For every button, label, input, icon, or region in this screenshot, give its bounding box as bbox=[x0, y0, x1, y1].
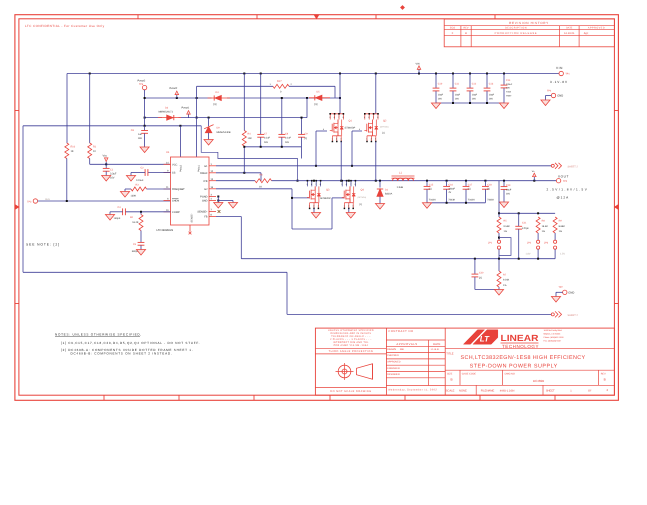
svg-text:FB: FB bbox=[204, 216, 208, 219]
wire PVCC2 riser bbox=[179, 126, 181, 157]
see note 2 text bbox=[26, 242, 60, 246]
svg-text:NOTES: UNLESS OTHERWISE SPECIF: NOTES: UNLESS OTHERWISE SPECIFIED, bbox=[55, 333, 142, 337]
inductor L1 bbox=[392, 171, 415, 189]
U1 pin labels bbox=[172, 163, 208, 222]
svg-text:130K: 130K bbox=[131, 194, 137, 197]
svg-text:C15: C15 bbox=[429, 183, 434, 186]
svg-text:SCALE: SCALE bbox=[446, 390, 455, 393]
svg-text:LT: LT bbox=[480, 335, 490, 344]
svg-text:VCC: VCC bbox=[172, 163, 178, 166]
wire input cap ground bus bbox=[436, 102, 504, 104]
svg-text:5: 5 bbox=[341, 183, 342, 186]
svg-text:1: 1 bbox=[366, 138, 367, 141]
svg-text:10uF: 10uF bbox=[506, 188, 512, 191]
wire Q2 gate riser bbox=[352, 128, 362, 166]
svg-text:G1: G1 bbox=[204, 165, 208, 168]
capacitor C3 bbox=[132, 242, 145, 252]
svg-text:DWG NO: DWG NO bbox=[505, 373, 515, 376]
svg-text:VIN: VIN bbox=[416, 63, 420, 66]
svg-text:[1]: [1] bbox=[315, 103, 318, 106]
title block outline bbox=[315, 328, 614, 395]
svg-text:SENSE-: SENSE- bbox=[191, 213, 194, 222]
svg-text:1630 McCarthy Blvd.: 1630 McCarthy Blvd. bbox=[544, 329, 563, 332]
svg-text:2: 2 bbox=[336, 138, 337, 141]
svg-text:PVcc1: PVcc1 bbox=[198, 164, 201, 172]
revision history table bbox=[444, 19, 614, 47]
svg-text:16V: 16V bbox=[472, 97, 477, 100]
svg-text:C17: C17 bbox=[468, 183, 473, 186]
ground at C2 bbox=[126, 173, 135, 182]
svg-text:REV: REV bbox=[464, 27, 469, 30]
power flag VIN bbox=[416, 63, 421, 74]
svg-text:LTC3832EGN: LTC3832EGN bbox=[157, 229, 174, 232]
svg-text:1: 1 bbox=[344, 205, 345, 208]
capacitor C17 bbox=[463, 181, 475, 203]
svg-text:R10: R10 bbox=[71, 146, 76, 149]
wire riser R17 left leg bbox=[196, 86, 198, 118]
svg-text:APPROVED: APPROVED bbox=[387, 361, 401, 364]
resistor R17 bbox=[197, 80, 335, 98]
svg-text:CHECKED: CHECKED bbox=[387, 354, 399, 357]
svg-text:9.01K: 9.01K bbox=[503, 279, 510, 282]
svg-text:APPROVALS: APPROVALS bbox=[396, 342, 417, 346]
wire PVCC top line bbox=[23, 125, 201, 127]
svg-text:469B-1.DSN: 469B-1.DSN bbox=[500, 390, 515, 393]
wire staircase to switch node bbox=[201, 126, 298, 182]
svg-text:8: 8 bbox=[343, 116, 344, 119]
capacitor C8 bbox=[278, 97, 291, 147]
svg-text:C20: C20 bbox=[479, 271, 484, 274]
wire divider top rail bbox=[498, 212, 555, 214]
svg-text:TP6: TP6 bbox=[139, 83, 144, 86]
svg-text:10uF: 10uF bbox=[438, 93, 444, 96]
resistor R2 bbox=[130, 212, 143, 242]
capacitor C19 bbox=[499, 181, 511, 208]
svg-text:FREQ/SET: FREQ/SET bbox=[172, 188, 185, 191]
svg-text:5: 5 bbox=[329, 116, 330, 119]
capacitor C1 bbox=[103, 164, 117, 179]
svg-text:MB: MB bbox=[400, 348, 404, 351]
svg-text:2 PLACES - - - 3 PLACES -: 2 PLACES - - - 3 PLACES - - - bbox=[330, 338, 372, 341]
svg-text:&gt;: &gt; bbox=[584, 32, 589, 35]
svg-text:DC469B-B: COMPONENTS ON SHEET: DC469B-B: COMPONENTS ON SHEET 2 INSTEAD. bbox=[71, 352, 173, 356]
svg-text:7343H: 7343H bbox=[429, 198, 436, 201]
svg-text:[1]: [1] bbox=[214, 103, 217, 106]
svg-text:COMP: COMP bbox=[172, 211, 180, 214]
svg-text:C21: C21 bbox=[522, 221, 527, 224]
svg-text:7343H: 7343H bbox=[487, 198, 494, 201]
svg-text:8.66K: 8.66K bbox=[559, 225, 566, 228]
svg-text:Si7892DP: Si7892DP bbox=[345, 127, 356, 130]
svg-text:3: 3 bbox=[352, 205, 353, 208]
svg-text:SS: SS bbox=[172, 172, 176, 175]
svg-text:JP1: JP1 bbox=[488, 241, 493, 244]
svg-text:C16: C16 bbox=[448, 183, 453, 186]
svg-text:16V: 16V bbox=[285, 141, 290, 144]
svg-text:3: 3 bbox=[318, 205, 319, 208]
svg-text:G2: G2 bbox=[204, 188, 208, 191]
ground below D9 bbox=[204, 140, 213, 146]
svg-text:C10: C10 bbox=[438, 82, 443, 85]
power flag Vcc bbox=[103, 155, 109, 165]
ground below Q3 bbox=[311, 208, 320, 218]
wire Pvout1 line bbox=[144, 98, 307, 119]
capacitor C13 bbox=[484, 74, 495, 104]
svg-text:IFB: IFB bbox=[204, 180, 208, 183]
svg-text:8: 8 bbox=[355, 183, 356, 186]
svg-text:TP7: TP7 bbox=[559, 286, 564, 289]
resistor R10 bbox=[65, 143, 76, 159]
svg-text:DATE: DATE bbox=[433, 342, 440, 346]
linear technology logo bbox=[464, 329, 565, 349]
plot registration mark bbox=[401, 6, 405, 10]
svg-text:PRODUCTION RELEASE: PRODUCTION RELEASE bbox=[495, 32, 538, 35]
wire Pvout2 line bbox=[145, 90, 341, 99]
svg-text:VOUT: VOUT bbox=[558, 174, 569, 178]
svg-text:U1: U1 bbox=[166, 151, 170, 154]
svg-text:3: 3 bbox=[340, 138, 341, 141]
svg-text:12-19-01: 12-19-01 bbox=[564, 32, 575, 35]
svg-text:16.2K: 16.2K bbox=[132, 221, 139, 224]
svg-text:Vcc: Vcc bbox=[103, 155, 108, 158]
svg-text:1.3uH: 1.3uH bbox=[397, 186, 404, 189]
svg-text:1K: 1K bbox=[71, 150, 74, 153]
ground below C3 bbox=[136, 250, 145, 256]
svg-text:Wednesday, September 11, 2002: Wednesday, September 11, 2002 bbox=[388, 388, 437, 391]
capacitor C14 bbox=[501, 74, 513, 104]
power flag Pvout2 bbox=[170, 87, 179, 98]
svg-text:JP3: JP3 bbox=[544, 241, 549, 244]
svg-text:3.1V-8V: 3.1V-8V bbox=[550, 80, 568, 84]
wire R5 to jumper JP1 bbox=[498, 213, 500, 240]
capacitor C16 bbox=[443, 181, 455, 203]
no-connect X at SENSE+ pin bbox=[218, 210, 221, 213]
svg-text:8: 8 bbox=[377, 116, 378, 119]
wire RMAX line bbox=[216, 172, 261, 181]
size/cage/dwg-no/rev row bbox=[445, 370, 614, 385]
capacitor C15 bbox=[424, 181, 436, 203]
svg-text:180uF: 180uF bbox=[448, 187, 455, 190]
transistor Q4 bbox=[341, 180, 366, 209]
svg-text:C13: C13 bbox=[489, 82, 494, 85]
svg-text:6: 6 bbox=[311, 183, 312, 186]
wire switch/output rail bbox=[272, 180, 557, 182]
wire G2 line bbox=[216, 189, 345, 229]
svg-text:C19: C19 bbox=[506, 184, 511, 187]
wire IFB line and resistor R6 bbox=[216, 174, 272, 189]
svg-text:7: 7 bbox=[350, 183, 351, 186]
wire cap bank bottom bus bbox=[243, 146, 301, 159]
ground at R3 bbox=[120, 189, 129, 197]
svg-text:16V: 16V bbox=[264, 141, 269, 144]
svg-text:1.5V: 1.5V bbox=[560, 253, 565, 256]
svg-text:8: 8 bbox=[320, 183, 321, 186]
capacitor C21 bbox=[515, 213, 529, 258]
svg-text:5: 5 bbox=[364, 116, 365, 119]
transistor Q2 bbox=[364, 74, 389, 143]
resistor R3 on FREQ/SET bbox=[125, 183, 171, 197]
svg-text:C18: C18 bbox=[487, 183, 492, 186]
op-amp U1 LTC3832EGN box bbox=[164, 157, 217, 232]
capacitor C18 bbox=[482, 181, 494, 203]
svg-text:TP4: TP4 bbox=[547, 89, 552, 92]
svg-text:@12A: @12A bbox=[557, 195, 570, 199]
wire PVCC1 riser bbox=[196, 118, 198, 157]
svg-text:220uF: 220uF bbox=[506, 83, 513, 86]
svg-text:10uF: 10uF bbox=[472, 93, 478, 96]
capacitor C11 bbox=[450, 74, 461, 104]
off-page connector SHEET 2 upper bbox=[551, 163, 578, 169]
svg-text:16V: 16V bbox=[138, 137, 143, 140]
svg-text:VIN: VIN bbox=[556, 66, 563, 70]
border frame outer bbox=[15, 15, 619, 401]
svg-text:(OPTION): (OPTION) bbox=[380, 126, 389, 129]
capacitor C12 bbox=[467, 74, 478, 104]
svg-text:[1]: [1] bbox=[360, 203, 363, 206]
svg-text:C11: C11 bbox=[455, 82, 460, 85]
svg-text:4V: 4V bbox=[448, 191, 451, 194]
wire VIN top rail bbox=[67, 74, 559, 144]
notes text bbox=[55, 333, 200, 356]
svg-text:FILENAME: FILENAME bbox=[481, 390, 495, 393]
jumper JP1 bbox=[488, 238, 511, 259]
resistor R7 bbox=[497, 259, 510, 290]
wire Q1 gate riser bbox=[316, 128, 327, 166]
power flag Vo bbox=[532, 170, 536, 181]
svg-text:1.8V: 1.8V bbox=[526, 253, 531, 256]
svg-text:OF: OF bbox=[588, 390, 592, 393]
svg-text:SEE NOTE: [2]: SEE NOTE: [2] bbox=[26, 242, 60, 246]
svg-text:1: 1 bbox=[309, 205, 310, 208]
svg-text:RUN: RUN bbox=[45, 198, 50, 201]
resistor R4 bbox=[242, 74, 252, 173]
ground below C1 bbox=[102, 176, 111, 182]
svg-text:TP2: TP2 bbox=[563, 180, 568, 183]
svg-text:10V: 10V bbox=[506, 87, 510, 90]
resistor R8 bbox=[536, 217, 548, 233]
svg-text:10uF: 10uF bbox=[455, 93, 461, 96]
svg-text:TP1: TP1 bbox=[565, 73, 570, 76]
svg-text:SHEET 2: SHEET 2 bbox=[568, 165, 579, 168]
test point TP7 with ground bbox=[551, 286, 574, 302]
svg-text:7: 7 bbox=[338, 116, 339, 119]
svg-text:Si7892DP: Si7892DP bbox=[320, 197, 331, 200]
zener diode D9 bbox=[204, 118, 231, 140]
diode D4 bbox=[208, 91, 231, 106]
jumper JP3 bbox=[544, 233, 565, 259]
contract/approvals cell bbox=[386, 330, 445, 392]
diode D3 bbox=[158, 107, 181, 121]
svg-text:[1]: [1] bbox=[382, 132, 385, 135]
svg-text:SHEET: SHEET bbox=[546, 390, 555, 393]
svg-text:RMAX: RMAX bbox=[200, 172, 208, 175]
svg-text:MBR0520LT1: MBR0520LT1 bbox=[159, 110, 174, 113]
svg-text:B: B bbox=[465, 32, 467, 35]
svg-text:ENGINEER: ENGINEER bbox=[387, 367, 400, 370]
svg-text:DO NOT SCALE DRAWING: DO NOT SCALE DRAWING bbox=[330, 390, 371, 393]
test point TP2 bbox=[547, 174, 589, 199]
svg-text:7: 7 bbox=[315, 183, 316, 186]
svg-text:[1]: [1] bbox=[468, 187, 471, 190]
svg-text:(OPTION): (OPTION) bbox=[358, 196, 367, 199]
svg-text:0.1uF: 0.1uF bbox=[264, 137, 270, 140]
capacitor C4 on COMP bbox=[110, 206, 171, 220]
svg-text:1uF: 1uF bbox=[138, 133, 143, 136]
svg-text:B320A: B320A bbox=[385, 193, 393, 196]
svg-text:B: B bbox=[604, 378, 606, 382]
svg-text:SENSE+: SENSE+ bbox=[197, 211, 208, 214]
svg-text:TP3: TP3 bbox=[27, 201, 32, 204]
ground at input caps right bbox=[499, 103, 508, 109]
svg-text:Milpitas, CA 95035: Milpitas, CA 95035 bbox=[544, 333, 562, 336]
svg-text:LTC CONFIDENTIAL - For Custome: LTC CONFIDENTIAL - For Customer Use Only bbox=[25, 24, 105, 28]
U1 reference labels bbox=[157, 151, 174, 232]
svg-text:0.01uF: 0.01uF bbox=[136, 179, 144, 182]
junctions on VIN rail bbox=[89, 73, 505, 75]
tolerance note cell bbox=[315, 329, 386, 354]
svg-text:PVcc2: PVcc2 bbox=[179, 164, 182, 172]
svg-text:2: 2 bbox=[313, 205, 314, 208]
junctions on switch/output rail bbox=[313, 180, 535, 182]
svg-text:DESIGNER: DESIGNER bbox=[387, 373, 400, 376]
ground below C6 bbox=[140, 147, 149, 153]
svg-text:6: 6 bbox=[368, 116, 369, 119]
svg-text:SHDN: SHDN bbox=[172, 200, 179, 203]
wire R10 to RUN line bbox=[66, 159, 68, 202]
svg-text:6: 6 bbox=[334, 116, 335, 119]
svg-text:[1]: [1] bbox=[305, 137, 308, 140]
title text cell bbox=[445, 348, 614, 370]
svg-text:1: 1 bbox=[332, 138, 333, 141]
capacitor C2 on SS bbox=[135, 166, 171, 182]
ground at output caps bbox=[422, 203, 431, 209]
wire TP6 riser bbox=[144, 97, 146, 126]
ground at input caps left bbox=[431, 103, 440, 109]
U1 pin numbers bbox=[166, 161, 214, 216]
svg-text:Pvout2: Pvout2 bbox=[138, 79, 146, 82]
diode D1 bbox=[377, 181, 393, 204]
do not scale drawing cell bbox=[315, 388, 386, 394]
svg-text:0.1uF: 0.1uF bbox=[285, 137, 291, 140]
svg-text:7: 7 bbox=[373, 116, 374, 119]
svg-text:Pvout1: Pvout1 bbox=[182, 107, 190, 110]
capacitor C9 bbox=[298, 117, 308, 147]
svg-text:PER ASME Y14.5M -1994: PER ASME Y14.5M -1994 bbox=[334, 344, 369, 347]
wire Q1 source riser bbox=[340, 142, 342, 181]
svg-text:[1] C9,C15,C17,C18,C20,D4,D5,Q: [1] C9,C15,C17,C18,C20,D4,D5,Q2,Q4 OPTIO… bbox=[61, 341, 200, 345]
test point TP6 bbox=[138, 79, 147, 89]
ground below R7 bbox=[494, 290, 503, 296]
svg-text:10uF: 10uF bbox=[489, 93, 495, 96]
svg-text:3: 3 bbox=[375, 138, 376, 141]
svg-text:TOLERANCE ON ANGLE - - -: TOLERANCE ON ANGLE - - - bbox=[331, 335, 370, 338]
svg-text:1K: 1K bbox=[259, 186, 262, 189]
svg-text:Pvout2: Pvout2 bbox=[170, 87, 178, 90]
svg-text:REVISION HISTORY: REVISION HISTORY bbox=[509, 21, 549, 25]
capacitor C6 bbox=[131, 126, 148, 147]
svg-text:STEP-DOWN POWER SUPPLY: STEP-DOWN POWER SUPPLY bbox=[470, 364, 558, 370]
jumper JP2 bbox=[526, 233, 540, 259]
svg-text:16.5K: 16.5K bbox=[542, 225, 549, 228]
diode D5 bbox=[309, 91, 330, 106]
ground at U1 PGND/GND pins bbox=[214, 196, 238, 209]
ground at C4 bbox=[105, 212, 114, 220]
test point TP1 bbox=[550, 66, 570, 84]
svg-text:GND: GND bbox=[568, 292, 574, 295]
svg-text:16V: 16V bbox=[438, 97, 443, 100]
svg-text:DRAWN: DRAWN bbox=[387, 348, 396, 351]
svg-text:12-19-01: 12-19-01 bbox=[431, 348, 441, 351]
svg-text:TANT: TANT bbox=[506, 94, 512, 97]
resistor R5 bbox=[497, 217, 510, 233]
svg-text:6: 6 bbox=[346, 183, 347, 186]
wire FB line bbox=[216, 217, 555, 260]
svg-text:GND: GND bbox=[557, 95, 563, 98]
wire G1 gate drive rail bbox=[216, 165, 551, 167]
wire output cap ground bus bbox=[427, 202, 485, 204]
svg-text:CAGE CODE: CAGE CODE bbox=[462, 373, 477, 376]
svg-text:JP2: JP2 bbox=[527, 241, 532, 244]
svg-text:DIMENSIONS ARE IN INCHES: DIMENSIONS ARE IN INCHES bbox=[330, 332, 371, 335]
no-connect X at SENSE- pin bbox=[189, 232, 192, 235]
wire Q2 source riser bbox=[375, 142, 377, 181]
svg-text:INTERPRET DIM AND TOL: INTERPRET DIM AND TOL bbox=[333, 341, 369, 344]
svg-text:SCH,LTC3832EGN/-1ES8 HIGH EFFI: SCH,LTC3832EGN/-1ES8 HIGH EFFICIENCY bbox=[460, 355, 585, 361]
svg-text:B: B bbox=[451, 378, 453, 382]
svg-text:5: 5 bbox=[307, 183, 308, 186]
svg-text:7343H: 7343H bbox=[448, 198, 455, 201]
note-2 frame bottom segment bbox=[23, 272, 551, 314]
svg-text:[2]: [2] bbox=[479, 276, 482, 279]
svg-text:UNLESS OTHERWISE SPECIFIED: UNLESS OTHERWISE SPECIFIED bbox=[328, 329, 374, 332]
svg-text:ECO: ECO bbox=[450, 27, 455, 30]
svg-text:2: 2 bbox=[348, 205, 349, 208]
test point TP3 bbox=[27, 198, 50, 204]
svg-text:7343: 7343 bbox=[506, 91, 512, 94]
resistor R9 bbox=[553, 217, 565, 233]
wire VCC line bbox=[90, 159, 171, 166]
svg-text:SHEET 2: SHEET 2 bbox=[568, 314, 579, 317]
capacitor C7 bbox=[257, 74, 270, 147]
svg-text:TITLE: TITLE bbox=[446, 352, 454, 355]
svg-text:Phone: (408)432-1900: Phone: (408)432-1900 bbox=[544, 336, 565, 339]
svg-text:GND: GND bbox=[202, 200, 208, 203]
capacitor C10 bbox=[433, 74, 444, 104]
svg-text:DATE: DATE bbox=[566, 27, 573, 30]
svg-text:12K: 12K bbox=[248, 137, 253, 140]
svg-text:2: 2 bbox=[371, 138, 372, 141]
svg-text:CONTRACT NO: CONTRACT NO bbox=[388, 330, 413, 333]
svg-text:DC469B: DC469B bbox=[533, 379, 544, 383]
svg-text:C12: C12 bbox=[472, 82, 477, 85]
svg-text:7343H: 7343H bbox=[468, 198, 475, 201]
svg-text:16V: 16V bbox=[455, 97, 460, 100]
svg-text:470pF: 470pF bbox=[522, 227, 529, 230]
svg-text:MMSZ5240B: MMSZ5240B bbox=[217, 131, 231, 134]
svg-text:[1]: [1] bbox=[429, 187, 432, 190]
third angle projection symbol bbox=[336, 363, 373, 380]
svg-text:SIZE: SIZE bbox=[447, 373, 453, 376]
transistor Q1 bbox=[329, 74, 355, 143]
ground below Q4 bbox=[346, 208, 355, 218]
svg-text:DESCRIPTION: DESCRIPTION bbox=[505, 27, 527, 30]
svg-text:Fax: (408)434-0507: Fax: (408)434-0507 bbox=[544, 340, 562, 343]
svg-text:APPROVED: APPROVED bbox=[588, 27, 605, 30]
svg-text:2.5V/1.8V/1.5V: 2.5V/1.8V/1.5V bbox=[547, 187, 589, 191]
border zone tick marks bbox=[15, 15, 619, 401]
wire RUN line TP3 to SHDN bbox=[38, 200, 171, 202]
ground below D1 bbox=[375, 204, 384, 210]
